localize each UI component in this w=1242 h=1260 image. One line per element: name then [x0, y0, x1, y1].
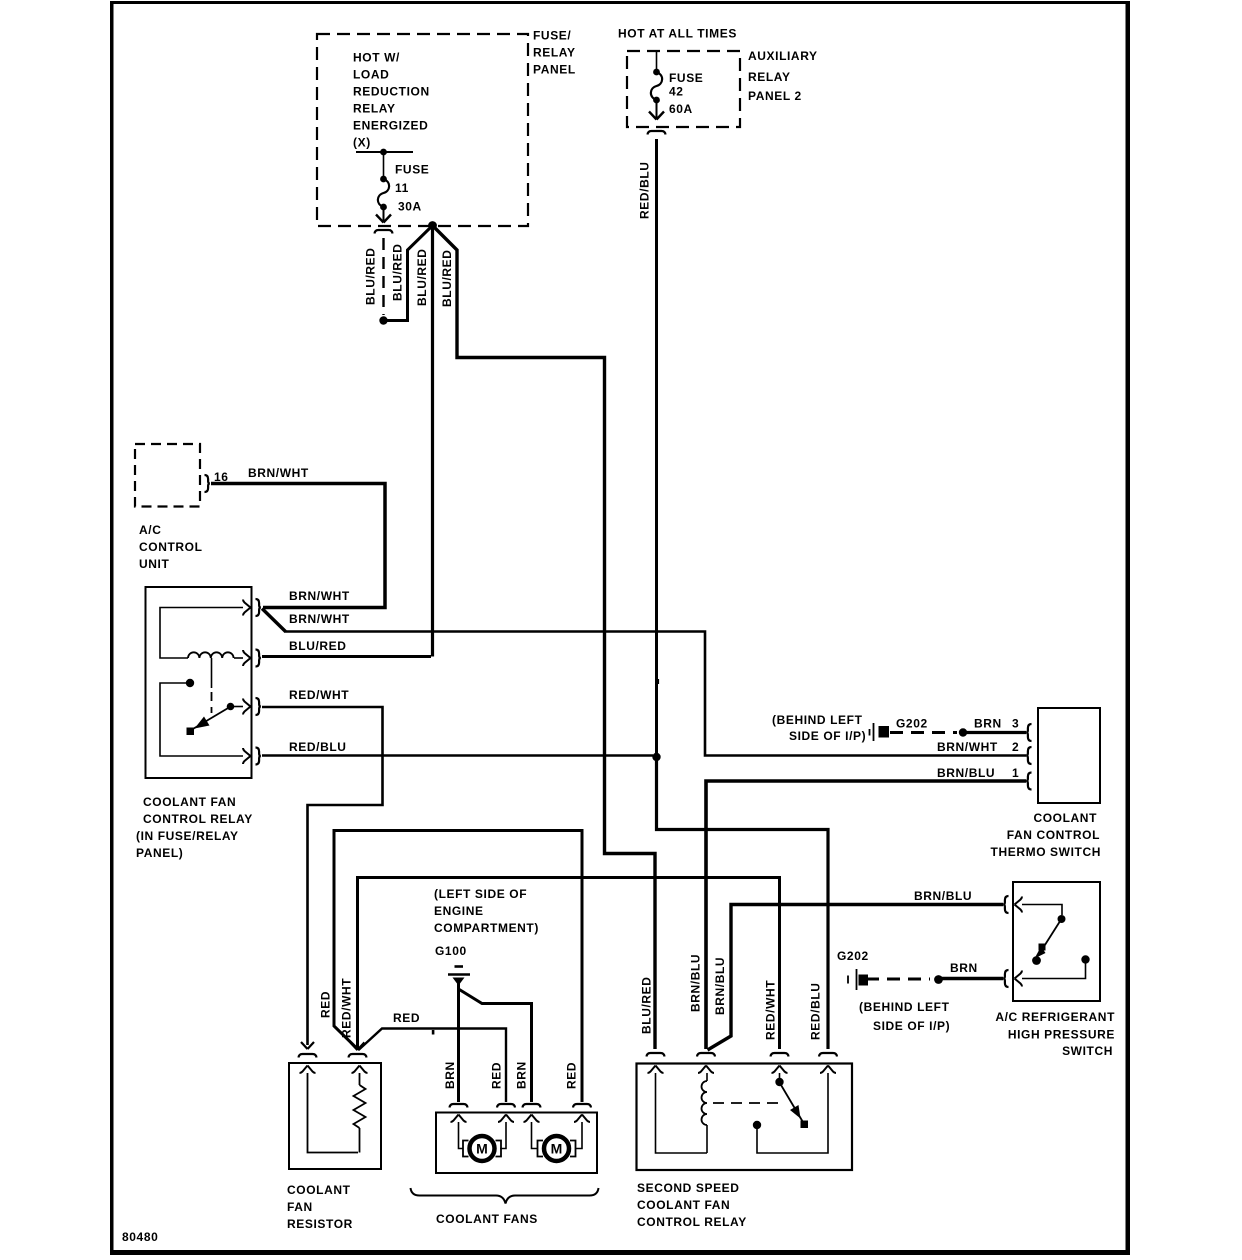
ground G100 symbol: [455, 965, 464, 968]
wire BRN/BLU pressure switch pin1 to second speed relay: [708, 905, 1004, 1051]
fan motor M1: [470, 1136, 495, 1161]
svg-text:2: 2: [1012, 740, 1019, 754]
svg-text:11: 11: [395, 181, 409, 195]
svg-text:THERMO SWITCH: THERMO SWITCH: [991, 845, 1101, 859]
wire G202 dashed 2: [866, 978, 930, 981]
svg-text:HOT W/: HOT W/: [353, 51, 400, 65]
wire fuse to arrow: [383, 209, 385, 221]
svg-text:SECOND SPEED: SECOND SPEED: [637, 1181, 740, 1195]
relay connector pin 2: [256, 650, 261, 667]
svg-text:RESISTOR: RESISTOR: [287, 1217, 353, 1231]
svg-text:CONTROL RELAY: CONTROL RELAY: [637, 1215, 747, 1229]
svg-text:ENGINE: ENGINE: [434, 904, 484, 918]
svg-text:1: 1: [1012, 766, 1019, 780]
connector ssr pin 4: [819, 1053, 837, 1057]
pressure switch top contact dot: [1058, 915, 1066, 923]
connector fan1 left pin: [450, 1104, 468, 1108]
svg-text:A/C REFRIGERANT: A/C REFRIGERANT: [995, 1010, 1115, 1024]
relay switch moving contact square: [187, 728, 195, 736]
svg-text:M: M: [551, 1141, 563, 1157]
connector below fuse/relay panel: [375, 230, 393, 234]
svg-text:BLU/RED: BLU/RED: [391, 243, 405, 301]
svg-text:UNIT: UNIT: [139, 557, 169, 571]
svg-text:FUSE: FUSE: [395, 163, 429, 177]
connector resistor right pin: [349, 1054, 367, 1058]
svg-text:BRN/WHT: BRN/WHT: [289, 589, 350, 603]
svg-text:G202: G202: [837, 949, 869, 963]
svg-text:RED/WHT: RED/WHT: [764, 980, 778, 1040]
svg-text:80480: 80480: [122, 1230, 158, 1244]
pressure switch pin1 wire: [1022, 905, 1062, 916]
relay coil circuit wire: [160, 608, 243, 659]
fuse F11: [380, 176, 387, 183]
wire BLU/RED relay pin 2: [262, 655, 431, 658]
wire node to fuse 11: [383, 152, 385, 176]
svg-text:(IN FUSE/RELAY: (IN FUSE/RELAY: [136, 829, 239, 843]
fan pin arrow 2: [498, 1115, 506, 1123]
svg-text:SWITCH: SWITCH: [1062, 1044, 1113, 1058]
ground G202 symbol 2: [856, 969, 858, 990]
node dot on BLU/RED dashed wire: [379, 316, 387, 324]
ssr switch top contact dot: [775, 1078, 783, 1086]
svg-text:(X): (X): [353, 136, 371, 150]
svg-text:PANEL): PANEL): [136, 846, 183, 860]
connector ssr pin 3: [771, 1053, 789, 1057]
connector resistor left pin: [299, 1054, 317, 1058]
svg-text:COOLANT: COOLANT: [287, 1183, 351, 1197]
relay switch arm: [192, 708, 229, 730]
svg-text:RELAY: RELAY: [353, 102, 396, 116]
svg-text:RED/BLU: RED/BLU: [289, 740, 347, 754]
thermo connector pin 3: [1026, 724, 1031, 741]
svg-text:BRN: BRN: [950, 961, 978, 975]
svg-text:BRN: BRN: [974, 717, 1002, 731]
svg-text:RELAY: RELAY: [533, 46, 576, 60]
pressure switch connector pin 2: [1003, 970, 1008, 987]
ssr pin arrow 2: [698, 1066, 706, 1074]
svg-text:BRN/WHT: BRN/WHT: [937, 740, 998, 754]
wire RED/BLU from aux panel down: [655, 139, 658, 755]
svg-text:BRN/BLU: BRN/BLU: [914, 889, 972, 903]
connector fan1 right pin: [497, 1104, 515, 1108]
fan pin arrow 1: [451, 1115, 459, 1123]
arrow into resistor left pin: [301, 1042, 308, 1049]
A/C control unit dashed box: [135, 444, 200, 507]
svg-text:COOLANT: COOLANT: [1033, 811, 1097, 825]
ssr switch arm: [781, 1085, 804, 1123]
svg-text:G100: G100: [435, 944, 467, 958]
svg-text:RED/WHT: RED/WHT: [289, 688, 349, 702]
coolant fan resistor box: [289, 1063, 381, 1169]
fuse/relay panel dashed box: [317, 34, 528, 226]
wire RED fan2 bridge: [334, 831, 582, 1103]
relay coil actuator dashed link: [211, 658, 213, 688]
svg-text:PANEL 2: PANEL 2: [748, 89, 802, 103]
wire BRN/WHT A/C unit to relay pin 1: [211, 484, 385, 608]
svg-text:BLU/RED: BLU/RED: [640, 976, 654, 1034]
svg-text:PANEL: PANEL: [533, 63, 576, 77]
svg-text:SIDE OF I/P): SIDE OF I/P): [789, 729, 866, 743]
pressure switch arm square: [1039, 944, 1046, 951]
ssr switch output wire: [757, 1073, 828, 1153]
connector below aux relay panel: [648, 131, 666, 135]
fan motor M2: [544, 1136, 569, 1161]
svg-text:60A: 60A: [669, 102, 693, 116]
coolant fan control thermo switch box: [1038, 708, 1100, 803]
ssr coil circuit: [656, 1073, 708, 1153]
coolant fans box: [436, 1113, 597, 1174]
svg-text:SIDE OF I/P): SIDE OF I/P): [873, 1019, 950, 1033]
svg-text:M: M: [476, 1141, 488, 1157]
relay coil: [188, 652, 234, 658]
svg-text:(BEHIND LEFT: (BEHIND LEFT: [772, 713, 863, 727]
svg-text:(LEFT SIDE OF: (LEFT SIDE OF: [434, 887, 527, 901]
svg-text:RED: RED: [565, 1062, 579, 1089]
pressure switch pin2 wire: [1022, 961, 1086, 979]
relay switch to pin 3 wire: [231, 706, 244, 708]
ssr switch arm arrowhead: [790, 1105, 801, 1119]
pressure switch pin 1 arrow: [1015, 897, 1023, 905]
svg-text:RELAY: RELAY: [748, 70, 791, 84]
arrow into resistor right junction: [351, 1043, 358, 1051]
wire BRN from G100 to fan 1: [457, 983, 460, 1102]
svg-text:(BEHIND LEFT: (BEHIND LEFT: [859, 1000, 950, 1014]
junction dot BRN 2: [934, 975, 943, 984]
second speed coolant fan control relay box: [637, 1064, 853, 1171]
wire RED/WHT relay pin 3 to resistor: [262, 707, 383, 1045]
junction dot RED/BLU: [652, 753, 660, 761]
wire BLU/RED dot up to junction: [384, 227, 432, 321]
svg-text:CONTROL: CONTROL: [139, 540, 203, 554]
svg-text:BRN/BLU: BRN/BLU: [713, 957, 727, 1015]
relay pin 2 arrow: [243, 650, 251, 658]
coolant fans brace: [411, 1188, 599, 1204]
arrow out of fuse 42: [649, 112, 657, 120]
wire BRN branch to fan 2: [459, 989, 532, 1102]
ssr switch lower contact dot: [753, 1121, 761, 1129]
node bus line with junction dot: [356, 151, 413, 153]
wire BRN to thermo pin 3: [963, 731, 1026, 734]
wire RED/BLU junction to second speed relay: [657, 757, 829, 1049]
relay pin 4 arrow: [243, 748, 251, 756]
relay switch common dot: [186, 679, 194, 687]
pressure switch arm arrowhead: [1035, 947, 1046, 959]
svg-text:42: 42: [669, 85, 684, 99]
ssr pin arrow 3: [772, 1066, 780, 1074]
relay connector pin 3: [256, 698, 261, 715]
svg-text:BRN/WHT: BRN/WHT: [289, 612, 350, 626]
svg-text:BLU/RED: BLU/RED: [440, 249, 454, 307]
thermo connector pin 2: [1026, 747, 1031, 764]
svg-text:BRN: BRN: [443, 1061, 457, 1089]
connector pin 16 of A/C control unit: [205, 475, 210, 492]
resistor internal wire left: [308, 1073, 359, 1153]
tick stub at crossing: [432, 1030, 435, 1035]
svg-text:A/C: A/C: [139, 523, 161, 537]
svg-text:RED/BLU: RED/BLU: [638, 161, 652, 219]
connector ssr pin 2: [697, 1053, 715, 1057]
wire RED/BLU relay pin 4 to junction: [262, 754, 653, 756]
pressure switch pin 2 arrow: [1015, 971, 1023, 979]
connector ssr pin 1: [647, 1053, 665, 1057]
arrow out of fuse 11: [376, 215, 384, 223]
pressure switch box: [1013, 882, 1100, 1001]
svg-text:BRN/WHT: BRN/WHT: [248, 466, 309, 480]
svg-text:RED: RED: [490, 1062, 504, 1089]
resistor pin arrow right: [352, 1066, 360, 1074]
ssr pin arrow 1: [648, 1066, 656, 1074]
page border frame: [110, 1, 1130, 4]
wire BRN/WHT diagonal from pin 1: [262, 609, 286, 632]
ssr pin arrow 4: [820, 1066, 828, 1074]
wire BLU/RED junction to second speed relay: [434, 227, 656, 1050]
svg-text:COOLANT FANS: COOLANT FANS: [436, 1212, 538, 1226]
junction dot BLU/RED at panel edge: [428, 221, 437, 230]
svg-text:FAN CONTROL: FAN CONTROL: [1007, 828, 1100, 842]
svg-text:RED/WHT: RED/WHT: [340, 978, 354, 1038]
thermo connector pin 1: [1026, 773, 1031, 790]
svg-text:BLU/RED: BLU/RED: [364, 247, 378, 305]
relay pin 3 arrow: [243, 699, 251, 707]
svg-text:FUSE/: FUSE/: [533, 29, 571, 43]
pressure switch connector pin 1: [1003, 896, 1008, 913]
svg-text:HIGH PRESSURE: HIGH PRESSURE: [1008, 1028, 1115, 1042]
svg-text:BRN/BLU: BRN/BLU: [689, 954, 703, 1012]
svg-text:BRN/BLU: BRN/BLU: [937, 766, 995, 780]
wire BRN/BLU thermo pin 1 to second speed relay: [706, 781, 1026, 1049]
svg-text:REDUCTION: REDUCTION: [353, 85, 430, 99]
ground G202 symbol: [873, 723, 875, 741]
pressure switch pin2 contact dot: [1081, 955, 1089, 963]
svg-text:FUSE: FUSE: [669, 71, 703, 85]
fuse F42: [653, 69, 660, 76]
connector fan2 left pin: [523, 1104, 541, 1108]
fan motor M2 wires: [532, 1122, 538, 1149]
ssr actuator dashed link: [713, 1102, 785, 1104]
ssr switch arm square: [801, 1121, 809, 1129]
svg-text:HOT AT ALL TIMES: HOT AT ALL TIMES: [618, 27, 737, 41]
fan pin arrow 3: [524, 1115, 532, 1123]
svg-text:3: 3: [1012, 717, 1019, 731]
svg-text:COOLANT FAN: COOLANT FAN: [637, 1198, 730, 1212]
wire panel top to fuse 42: [656, 51, 658, 69]
pressure switch lower contact dot: [1032, 956, 1041, 965]
svg-text:30A: 30A: [398, 200, 422, 214]
connector fan2 right pin: [573, 1104, 591, 1108]
svg-text:COMPARTMENT): COMPARTMENT): [434, 921, 539, 935]
coolant fan control relay box: [146, 587, 252, 778]
svg-text:BLU/RED: BLU/RED: [415, 248, 429, 306]
resistor element R1: [359, 1073, 361, 1085]
svg-text:RED: RED: [393, 1011, 420, 1025]
wire BLU/RED dashed segment: [382, 238, 384, 315]
pressure switch arm: [1043, 922, 1060, 948]
ssr coil: [702, 1081, 708, 1125]
relay switch fixed contact dot: [227, 703, 235, 711]
relay connector pin 1: [256, 599, 261, 616]
wire BRN/WHT to thermo switch pin 2: [284, 632, 1026, 756]
relay pin 1 arrow: [243, 600, 251, 608]
svg-text:BRN: BRN: [515, 1061, 529, 1089]
relay switch common wire: [160, 683, 243, 756]
wire fuse 42 to arrow: [656, 102, 658, 118]
fan motor M1 wires: [459, 1122, 464, 1149]
wire BRN to pressure switch pin 2: [941, 977, 1003, 980]
wire G202 dashed: [890, 731, 957, 734]
svg-text:LOAD: LOAD: [353, 68, 389, 82]
svg-text:CONTROL RELAY: CONTROL RELAY: [143, 812, 253, 826]
svg-text:BLU/RED: BLU/RED: [289, 639, 347, 653]
resistor pin arrow left: [300, 1066, 308, 1074]
wire RED horizontal to fan 1: [359, 1029, 507, 1103]
auxiliary relay panel 2 dashed box: [627, 51, 740, 127]
svg-text:G202: G202: [896, 717, 928, 731]
wire RED/WHT bridge to second speed relay: [358, 878, 780, 1050]
svg-text:ENERGIZED: ENERGIZED: [353, 119, 428, 133]
fan pin arrow 4: [574, 1115, 582, 1123]
relay connector pin 4: [256, 748, 261, 765]
wire BLU/RED junction down to relay pin 2: [431, 226, 434, 657]
svg-text:COOLANT FAN: COOLANT FAN: [143, 795, 236, 809]
svg-text:RED/BLU: RED/BLU: [809, 982, 823, 1040]
svg-text:RED: RED: [319, 991, 333, 1018]
svg-text:AUXILIARY: AUXILIARY: [748, 49, 818, 63]
svg-text:FAN: FAN: [287, 1200, 313, 1214]
tick mark on aux wire: [657, 679, 660, 684]
junction dot BRN: [959, 728, 967, 736]
